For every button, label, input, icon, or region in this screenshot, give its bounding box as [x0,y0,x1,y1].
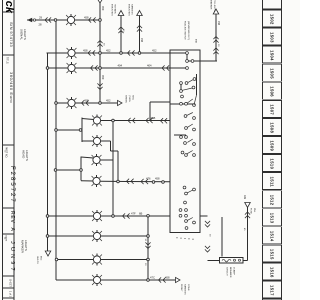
svg-text:404: 404 [147,63,152,67]
svg-text:(REVERSED OUT): (REVERSED OUT) [187,21,189,40]
svg-text:HARNESS: HARNESS [183,284,186,295]
svg-text:TITLE:: TITLE: [6,57,9,65]
svg-text:JUN97: JUN97 [9,241,15,274]
svg-text:SIGNAL: SIGNAL [20,29,24,40]
svg-text:CIRCUIT: CIRCUIT [226,267,228,277]
svg-text:458: 458 [155,176,160,180]
svg-text:1503: 1503 [270,32,275,43]
svg-text:458: 458 [165,275,170,279]
svg-text:1512: 1512 [270,195,275,206]
svg-text:MOUNTING: MOUNTING [128,4,130,16]
svg-text:476: 476 [146,176,151,180]
svg-text:FUSE: FUSE [250,208,252,214]
svg-text:BREAKER: BREAKER [229,267,232,278]
svg-text:1504: 1504 [270,50,275,61]
svg-text:47C: 47C [150,275,155,279]
svg-text:1516: 1516 [270,267,275,278]
svg-text:SHEET: SHEET [9,279,12,288]
svg-text:LIGHTS: LIGHTS [24,240,28,251]
svg-text:MARKER: MARKER [21,240,25,254]
svg-text:LIGHTS: LIGHTS [23,29,27,40]
svg-text:45B: 45B [194,39,196,43]
svg-text:TO LIGHTS: TO LIGHTS [213,0,215,12]
svg-text:GND TO: GND TO [36,256,38,264]
svg-text:459: 459 [101,6,105,11]
svg-text:1509: 1509 [270,140,275,151]
svg-text:1515: 1515 [270,249,275,260]
svg-text:458: 458 [140,38,143,43]
svg-text:SIG): SIG) [131,95,133,100]
svg-text:15 AMP: 15 AMP [232,267,235,275]
svg-text:458: 458 [84,98,89,102]
svg-text:1513: 1513 [270,213,275,224]
svg-text:1 of 1: 1 of 1 [9,291,12,298]
svg-text:1506: 1506 [270,86,275,97]
svg-text:29: 29 [39,16,42,20]
svg-text:1505: 1505 [270,68,275,79]
svg-text:452: 452 [106,98,111,102]
svg-text:1514: 1514 [270,231,275,242]
svg-text:ck: ck [3,1,15,14]
svg-text:F285727: F285727 [9,166,15,204]
svg-text:459: 459 [101,75,105,80]
svg-text:(TURN: (TURN [128,95,130,102]
svg-text:458: 458 [83,48,88,52]
svg-text:469: 469 [243,195,246,200]
svg-text:458: 458 [84,15,89,19]
svg-text:1502: 1502 [270,14,275,25]
svg-text:TB HARN: TB HARN [114,4,117,14]
svg-text:452: 452 [106,48,111,52]
svg-text:MOUNTING: MOUNTING [111,4,113,16]
svg-text:HARNESS: HARNESS [131,4,134,15]
svg-text:6B: 6B [139,211,142,215]
svg-text:45B: 45B [151,116,156,120]
svg-text:S/N 974733: S/N 974733 [9,22,14,48]
svg-text:CONN: CONN [187,284,189,291]
svg-text:360/460 Euro: 360/460 Euro [9,72,14,103]
svg-text:HEAD: HEAD [22,150,26,159]
svg-text:1508: 1508 [270,122,275,133]
svg-text:47F: 47F [131,211,136,215]
svg-text:404: 404 [118,63,123,67]
svg-text:ENG: ENG [39,256,41,261]
svg-text:LIGHTS: LIGHTS [25,150,29,161]
svg-text:GREEN: GREEN [125,95,127,103]
svg-text:FRONT: FRONT [180,284,182,292]
svg-text:1510: 1510 [270,159,275,170]
svg-text:452: 452 [152,48,157,52]
svg-text:REV: REV [9,211,15,224]
svg-text:1507: 1507 [270,104,275,115]
svg-text:1511: 1511 [270,177,275,188]
svg-text:ROLLING SWITCH: ROLLING SWITCH [184,21,186,40]
svg-text:MARKER: MARKER [210,0,213,10]
svg-text:PART NO.: PART NO. [5,147,8,158]
svg-text:458: 458 [217,21,220,26]
svg-text:28: 28 [39,23,42,27]
svg-text:1517: 1517 [270,285,275,296]
